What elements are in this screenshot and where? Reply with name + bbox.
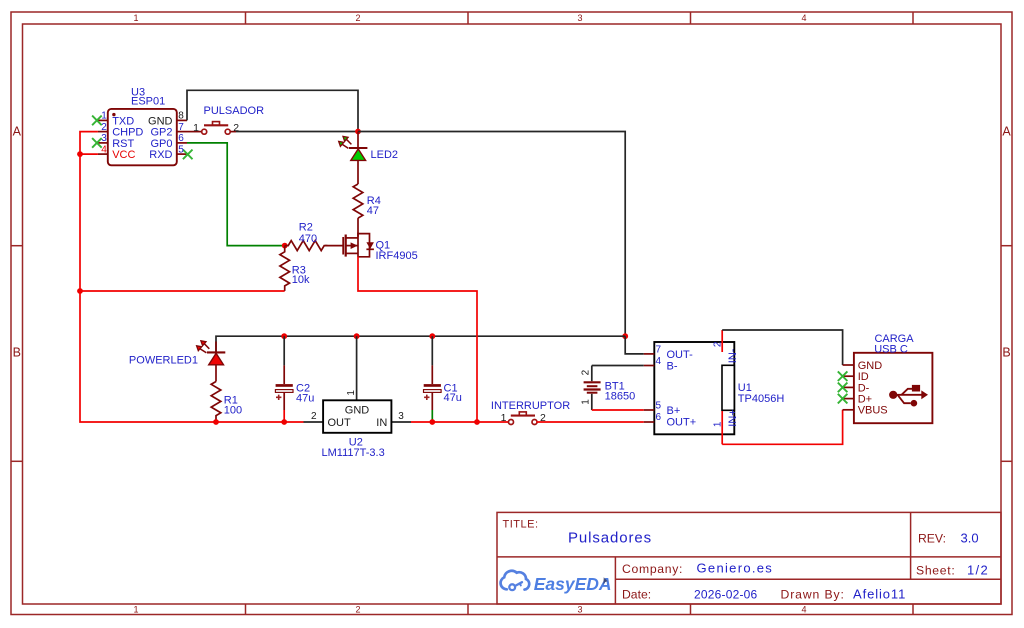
svg-text:3: 3 [577, 13, 582, 23]
LED2 green LED [339, 132, 398, 162]
wire switch to U1 OUT+ [536, 421, 643, 423]
wire R2 to Q1 gate [325, 245, 343, 247]
svg-text:5: 5 [655, 401, 661, 412]
wire R4 to Q1 [357, 218, 359, 237]
svg-text:7: 7 [655, 344, 661, 355]
USB pin names [858, 360, 888, 417]
node LED2 top junction [355, 129, 361, 135]
svg-text:2: 2 [355, 605, 360, 615]
svg-text:EasyEDA: EasyEDA [534, 574, 612, 594]
svg-text:2: 2 [581, 369, 592, 375]
svg-text:OUT: OUT [328, 417, 352, 429]
wire +3.3V rail [216, 421, 304, 423]
svg-text:1: 1 [712, 421, 723, 427]
node GND rail right junction [622, 333, 628, 339]
U1 pin 4 B- [644, 365, 655, 367]
wire switch to LED junction [236, 131, 358, 133]
transistor Q1 IRF4905 [343, 233, 418, 263]
USB pin ID [843, 375, 854, 377]
node rail-R3 junction [77, 288, 83, 294]
svg-text:VBUS: VBUS [858, 405, 888, 417]
U3 pin 1 TXD [98, 119, 108, 121]
U3 pin numbers [101, 111, 184, 156]
svg-text:RST: RST [112, 138, 134, 150]
svg-text:47u: 47u [296, 392, 314, 404]
svg-text:VCC: VCC [112, 149, 135, 161]
svg-text:Date:: Date: [622, 588, 651, 602]
regulator U2 LM1117T-3.3 [304, 336, 412, 459]
node R2/R3 junction [282, 243, 288, 249]
svg-text:IN: IN [376, 417, 387, 429]
title block [497, 512, 1001, 604]
U1 pin numbers [655, 344, 661, 423]
svg-text:OUT-: OUT- [667, 349, 694, 361]
svg-text:TITLE:: TITLE: [503, 519, 539, 531]
svg-text:Geniero.es: Geniero.es [697, 561, 774, 576]
node VCC-rail junction [77, 151, 83, 157]
wire C1 bottom green [431, 410, 433, 422]
svg-text:2: 2 [311, 411, 317, 422]
svg-text:3: 3 [101, 133, 107, 144]
svg-text:LM1117T-3.3: LM1117T-3.3 [322, 447, 385, 459]
svg-text:1: 1 [101, 111, 107, 122]
svg-text:IN+: IN+ [727, 409, 739, 426]
U1 pin 2 IN- stub [721, 330, 723, 352]
svg-text:GP0: GP0 [150, 138, 172, 150]
svg-text:A: A [1002, 125, 1011, 139]
svg-text:4: 4 [801, 13, 806, 23]
svg-text:TXD: TXD [112, 115, 134, 127]
svg-text:1/2: 1/2 [967, 563, 989, 578]
svg-text:2: 2 [712, 341, 723, 347]
svg-text:3: 3 [398, 411, 404, 422]
svg-text:USB C: USB C [874, 343, 908, 355]
svg-text:OUT+: OUT+ [667, 417, 697, 429]
wire battery top to U1 B- [592, 365, 644, 367]
svg-text:47: 47 [367, 205, 379, 217]
svg-text:4: 4 [101, 144, 107, 155]
wire POWERLED1 to R1 [215, 365, 217, 381]
resistor R2 [285, 221, 328, 250]
svg-text:7: 7 [178, 122, 184, 133]
U3 pin 3 RST [98, 142, 108, 144]
svg-text:Sheet:: Sheet: [916, 564, 955, 578]
charger U1 TP4056H [644, 330, 785, 444]
svg-text:D+: D+ [858, 394, 872, 406]
U3 pin 4 VCC [98, 153, 108, 155]
U1 pin 5 B+ [644, 409, 655, 411]
svg-text:INTERRUPTOR: INTERRUPTOR [491, 400, 570, 412]
svg-text:3.0: 3.0 [961, 531, 979, 546]
svg-text:IRF4905: IRF4905 [376, 250, 418, 262]
wire U1 IN+ to USB VBUS [722, 410, 842, 445]
svg-text:LED2: LED2 [371, 149, 399, 161]
node C2 top junction [281, 333, 287, 339]
wire junction to U1 pin7 [625, 336, 644, 354]
U1 pin 1 IN+ stub [721, 411, 723, 444]
svg-text:GND: GND [148, 115, 173, 127]
POWERLED1 red LED [129, 341, 225, 367]
wire left VCC rail down [79, 154, 81, 291]
U3 ESP01 [92, 86, 192, 165]
svg-text:1: 1 [133, 13, 138, 23]
battery BT1 18650 [581, 366, 635, 411]
svg-text:2: 2 [355, 13, 360, 23]
resistor R3 [280, 246, 310, 291]
wire U2 IN to rail [411, 421, 509, 423]
svg-text:R2: R2 [299, 221, 313, 233]
svg-text:B: B [1002, 346, 1010, 360]
svg-text:100: 100 [224, 404, 242, 416]
U3 pin 7 GP2 [177, 131, 187, 133]
svg-text:GND: GND [858, 360, 883, 372]
node R1 bottom junction [213, 419, 219, 425]
node C1 top junction [429, 333, 435, 339]
wire rail to R3 bottom [80, 290, 285, 292]
svg-text:18650: 18650 [605, 391, 636, 403]
wire GND top rail [216, 336, 625, 352]
svg-text:B+: B+ [667, 405, 681, 417]
U3 pin 6 GP0 [177, 142, 187, 144]
wire left rail to bottom [80, 291, 216, 422]
svg-text:3: 3 [577, 605, 582, 615]
svg-text:1: 1 [193, 122, 199, 134]
no-connect X pin5 [183, 150, 193, 160]
U3 pin 5 RXD [177, 153, 187, 155]
no-connect X D+ [838, 394, 848, 404]
U3 pin 8 GND [177, 119, 187, 121]
wire U1 IN- to USB GND [722, 330, 842, 365]
svg-text:1: 1 [346, 390, 357, 396]
no-connect X D- [838, 383, 848, 393]
EasyEDA logo [501, 571, 612, 594]
svg-text:ESP01: ESP01 [131, 96, 165, 108]
svg-text:TP4056H: TP4056H [738, 393, 785, 405]
svg-text:Afelio11: Afelio11 [853, 587, 906, 602]
wire GP0 green net to R2/R3 [187, 143, 285, 246]
svg-text:GP2: GP2 [150, 127, 172, 139]
svg-text:Company:: Company: [622, 562, 683, 576]
svg-text:4: 4 [655, 356, 661, 367]
svg-text:1: 1 [581, 399, 592, 405]
svg-text:B: B [13, 346, 21, 360]
svg-text:PULSADOR: PULSADOR [204, 105, 265, 117]
PULSADOR switch SW [187, 105, 264, 134]
resistor R4 [353, 184, 381, 218]
svg-text:POWERLED1: POWERLED1 [129, 355, 198, 367]
svg-text:CHPD: CHPD [112, 127, 143, 139]
wire battery bottom to U1 B+ [592, 409, 644, 411]
svg-text:Drawn By:: Drawn By: [781, 588, 845, 602]
capacitor C1 [424, 336, 462, 410]
svg-text:2: 2 [101, 122, 107, 133]
svg-text:4: 4 [801, 605, 806, 615]
resistor R1 [211, 382, 242, 423]
node Q1 drain rail junction [474, 419, 480, 425]
svg-text:8: 8 [178, 111, 184, 122]
wire Q1 drain to battery rail [358, 257, 477, 423]
wire junction right and down to GND rail [358, 132, 625, 337]
svg-text:GND: GND [345, 405, 370, 417]
svg-text:6: 6 [178, 133, 184, 144]
svg-text:RXD: RXD [149, 149, 172, 161]
svg-text:5: 5 [178, 144, 184, 155]
U1 pin 7 OUT- [644, 353, 655, 355]
U1 pin names [667, 349, 697, 429]
USB pin VBUS [843, 409, 854, 411]
connector CARGA USB C [838, 333, 933, 423]
wire CHPD to VCC rail [80, 132, 98, 155]
svg-text:Pulsadores: Pulsadores [568, 529, 652, 546]
U3 pin 2 CHPD [98, 131, 108, 133]
no-connect X pin1 [92, 116, 102, 126]
wire LED2 to R4 [357, 161, 359, 184]
USB pin D- [843, 386, 854, 388]
node C2 bottom junction [281, 419, 287, 425]
svg-text:47u: 47u [444, 392, 462, 404]
U1 pin 6 OUT+ [644, 421, 655, 423]
no-connect X pin3 [92, 138, 102, 148]
svg-text:1: 1 [501, 412, 507, 424]
node U2 GND top junction [354, 333, 360, 339]
svg-text:470: 470 [299, 233, 317, 245]
svg-text:6: 6 [655, 412, 661, 423]
svg-text:ID: ID [858, 371, 869, 383]
node C1 bottom junction [429, 419, 435, 425]
no-connect X ID [838, 371, 848, 381]
INTERRUPTOR switch SW [491, 400, 570, 424]
capacitor C2 [275, 336, 314, 422]
svg-text:REV:: REV: [918, 532, 946, 546]
USB pin D+ [843, 398, 854, 400]
USB pin GND [843, 364, 854, 366]
svg-text:D-: D- [858, 382, 870, 394]
svg-text:2026-02-06: 2026-02-06 [694, 588, 758, 602]
USB icon [889, 385, 928, 407]
svg-text:A: A [13, 125, 22, 139]
U3 pin names [112, 115, 172, 161]
svg-text:B-: B- [667, 360, 678, 372]
svg-text:IN-: IN- [727, 348, 739, 363]
svg-text:1: 1 [133, 605, 138, 615]
wire ESP GND pin8 up and over [187, 90, 358, 131]
svg-text:10k: 10k [292, 274, 310, 286]
